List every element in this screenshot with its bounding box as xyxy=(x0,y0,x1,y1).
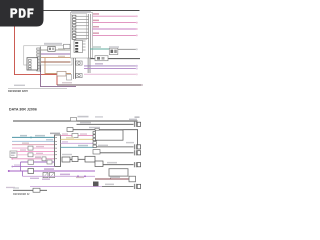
connector C4 xyxy=(134,150,140,155)
PDF badge xyxy=(0,0,44,27)
sounder box 2 xyxy=(76,74,82,78)
violet wire 2 xyxy=(84,68,137,70)
left harness: blue wire xyxy=(12,140,55,142)
purple harness row B xyxy=(9,170,96,172)
sub-box pin leads xyxy=(78,41,85,50)
bus row 1 xyxy=(77,123,134,125)
right harness: yellow wire xyxy=(61,138,94,140)
left harness: pink wire 2 xyxy=(17,150,55,152)
purple label smudges lower-left xyxy=(30,178,39,179)
pink wire 4 xyxy=(93,34,137,36)
small feed box xyxy=(93,150,100,155)
connector C3 xyxy=(134,144,140,149)
dark splice square xyxy=(93,182,99,187)
small connector above border xyxy=(71,118,77,122)
connector C6 xyxy=(134,184,140,189)
wire red battery feed xyxy=(15,27,58,86)
wire maroon bottom run xyxy=(57,84,143,86)
left harness: pink wire 1 xyxy=(12,147,55,149)
violet wire 1 xyxy=(84,65,137,67)
tall connector C0 xyxy=(50,133,60,135)
svg-text:DEFENDER 02MY: DEFENDER 02MY xyxy=(8,90,28,93)
light pink wire xyxy=(84,73,137,75)
maroon bus row xyxy=(95,178,129,180)
page 1 footer note xyxy=(14,85,25,86)
right harness: pink wire xyxy=(61,135,94,137)
right harness: teal wire 2 xyxy=(61,146,97,148)
light purple bottom row xyxy=(30,186,102,188)
left harness: pink wire 4 xyxy=(12,158,55,160)
wire tan mid xyxy=(41,58,75,74)
wire violet mid xyxy=(41,53,74,55)
pink wire 3 xyxy=(93,28,137,30)
small gray component xyxy=(67,75,72,81)
central block outline xyxy=(71,13,93,59)
right harness: light purple wire xyxy=(61,142,94,144)
teal wire xyxy=(90,48,109,50)
connector pin column xyxy=(39,47,41,73)
connector C5 xyxy=(134,162,140,167)
pins column xyxy=(73,15,76,39)
component box B3 xyxy=(109,169,128,176)
wire brown mid xyxy=(41,61,71,63)
small box at maroon row xyxy=(129,176,136,182)
pin column xyxy=(93,132,96,148)
purple harness row C xyxy=(23,175,96,177)
inline component on black wire xyxy=(95,56,108,61)
wire purple vertical from module xyxy=(41,54,77,87)
pin leads xyxy=(76,16,89,38)
sounder box 1 xyxy=(76,61,82,65)
page 1 top border xyxy=(43,10,140,12)
switch boxes with X xyxy=(43,172,48,177)
left harness: maroon wire xyxy=(12,144,55,146)
inline component on teal wire xyxy=(109,48,118,54)
purple harness row A xyxy=(21,161,55,163)
black wire mid xyxy=(91,58,141,60)
bus row 2 with right drop xyxy=(73,130,138,145)
block lower verticals xyxy=(73,58,90,79)
connector C1 xyxy=(134,122,140,127)
bottom partial rule xyxy=(13,187,19,188)
bus row to C5 xyxy=(95,161,103,167)
pink wire 2 xyxy=(93,22,137,24)
mid box row xyxy=(62,154,72,155)
left connector box xyxy=(10,151,17,158)
block inner sub-box xyxy=(74,41,83,53)
wire label smudges xyxy=(58,48,65,49)
inline fuse tan component xyxy=(57,71,66,76)
label above module xyxy=(44,43,62,45)
pink wire 1 xyxy=(93,15,137,17)
page 2 top border xyxy=(13,120,138,122)
svg-text:DATA 30R J2006: DATA 30R J2006 xyxy=(9,108,37,112)
block inner wall xyxy=(72,14,87,39)
component box B2 xyxy=(95,130,123,140)
left harness: teal wire xyxy=(12,136,55,138)
module box (alarm ECU) xyxy=(24,46,72,65)
svg-text:DEFENDER 02: DEFENDER 02 xyxy=(13,193,30,196)
relay inside module xyxy=(48,46,55,51)
left harness: pink wire 3 xyxy=(17,154,55,156)
maroon row label smudge xyxy=(62,82,72,83)
bus to C3 xyxy=(97,146,134,148)
connector sub-box xyxy=(27,58,38,70)
bus row 4 xyxy=(102,185,134,187)
block inner channel xyxy=(88,14,90,58)
purple harness row A2 xyxy=(12,166,55,168)
junction box at module/block joint xyxy=(64,44,71,48)
bus to C4 xyxy=(100,152,134,154)
page 1 footer rule xyxy=(8,88,67,90)
central block title xyxy=(71,11,91,13)
wire gray relay row xyxy=(41,49,48,51)
